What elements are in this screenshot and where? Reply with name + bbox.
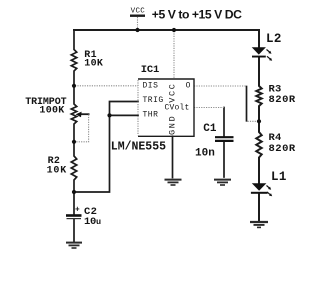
svg-text:VCC: VCC: [167, 82, 177, 102]
svg-text:IC1: IC1: [141, 64, 159, 76]
svg-text:10n: 10n: [195, 148, 215, 160]
svg-text:100K: 100K: [39, 105, 64, 116]
svg-text:C1: C1: [203, 123, 217, 135]
svg-text:10K: 10K: [84, 59, 103, 70]
svg-text:820R: 820R: [269, 94, 296, 106]
svg-text:DIS: DIS: [143, 82, 159, 91]
svg-text:VCC: VCC: [131, 8, 146, 16]
svg-text:CVolt: CVolt: [165, 104, 190, 113]
svg-text:+: +: [75, 206, 80, 214]
svg-text:O: O: [186, 82, 191, 91]
svg-text:TRIG: TRIG: [143, 96, 164, 105]
svg-text:LM/NE555: LM/NE555: [111, 140, 166, 153]
svg-text:10u: 10u: [84, 216, 101, 228]
svg-text:L1: L1: [271, 170, 287, 184]
svg-text:THR: THR: [143, 111, 159, 120]
svg-text:820R: 820R: [269, 143, 296, 155]
svg-text:GND: GND: [167, 115, 177, 135]
svg-text:10K: 10K: [47, 165, 67, 176]
svg-text:L2: L2: [266, 32, 282, 46]
svg-text:+5 V to +15 V DC: +5 V to +15 V DC: [152, 8, 242, 22]
